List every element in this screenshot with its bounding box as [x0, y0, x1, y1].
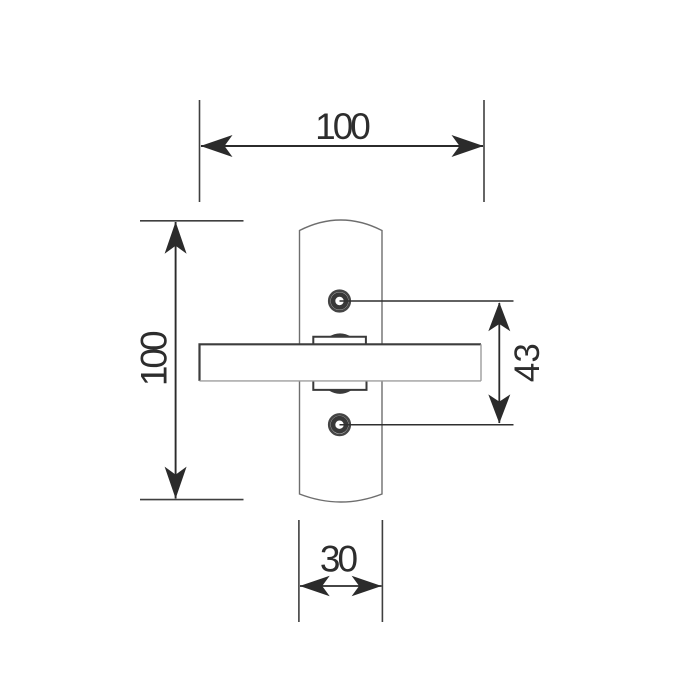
- left dimension: label 100 (rotated): [134, 331, 175, 386]
- right dimension 43: up arrow: [488, 302, 510, 331]
- bottom screw: [329, 414, 350, 435]
- right dimension 43: line: [498, 303, 500, 423]
- bottom dimension 30: label: [320, 539, 358, 580]
- top dimension: right arrow: [452, 135, 484, 157]
- plate (escutcheon outline): [300, 220, 383, 502]
- top screw: [329, 291, 350, 312]
- left dimension: line: [175, 222, 177, 499]
- top dimension: label 100: [315, 106, 370, 147]
- hub lower tab: [329, 390, 352, 394]
- right dimension 43: down arrow: [488, 394, 510, 423]
- lever handle bar: [200, 344, 482, 381]
- top dimension: left extension line: [199, 100, 201, 202]
- top screw leader line: [340, 300, 514, 302]
- bottom dimension 30: right extension line: [381, 520, 383, 622]
- hub upper tab: [329, 333, 352, 337]
- svg-text:30: 30: [320, 539, 358, 580]
- top dimension: line: [201, 145, 483, 147]
- bottom dimension 30: left extension line: [298, 520, 300, 622]
- left dimension: top extension line: [140, 220, 244, 222]
- bottom dimension 30: right arrow: [352, 576, 382, 597]
- bottom dimension 30: line: [300, 585, 382, 587]
- bottom dimension 30: left arrow: [300, 576, 330, 597]
- left dimension: down arrow: [165, 467, 187, 499]
- hub upper bracket: [313, 337, 366, 345]
- left dimension: up arrow: [165, 222, 187, 254]
- svg-text:43: 43: [508, 343, 547, 382]
- top dimension: left arrow: [201, 135, 233, 157]
- svg-text:100: 100: [134, 331, 175, 386]
- bottom screw leader line: [340, 424, 514, 426]
- svg-text:100: 100: [315, 106, 370, 147]
- left dimension: bottom extension line: [140, 499, 244, 501]
- hub lower bracket: [313, 381, 366, 390]
- top dimension: right extension line: [483, 100, 485, 202]
- right dimension 43: label (rotated): [508, 343, 547, 382]
